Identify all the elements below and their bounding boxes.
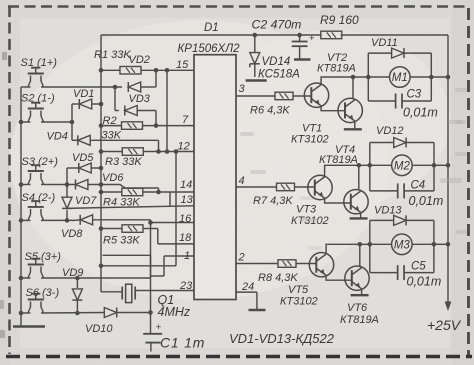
node rail junction М3: [446, 242, 451, 247]
wire VD1-VD4 column vertical: [71, 104, 73, 140]
motor М3: [370, 243, 392, 245]
transistor VT4: [344, 190, 368, 214]
wire VT4 emitter down: [360, 212, 362, 218]
wire column C pin12 down to bus stub: [175, 152, 177, 266]
wire М1 to +25V rail: [431, 76, 448, 78]
resistor R3: [122, 148, 143, 156]
wire VD7 column vertical: [66, 185, 68, 198]
wire pin24 to ground: [236, 291, 257, 293]
diode VD3: [124, 106, 126, 116]
resistor R1: [120, 67, 141, 75]
wire keyboard bus vertical x=101 from rail to crystal: [100, 35, 102, 292]
ground under VD14: [246, 79, 267, 81]
wire pin3 line: [236, 95, 275, 97]
node М3 left: [368, 242, 373, 247]
node rail junction М1: [446, 75, 451, 80]
diode VD1: [72, 103, 79, 105]
node collectors junction: [351, 75, 356, 80]
wire VT5 emitter to VT6 base: [326, 275, 352, 280]
ground VT4 emitter: [350, 217, 368, 219]
node S3/VD5/VD7 junction: [65, 182, 70, 187]
diode VD4: [72, 139, 78, 141]
ground VT6 emitter: [351, 294, 369, 296]
diode VD6: [75, 180, 77, 190]
node М3 right: [432, 242, 437, 247]
wire S6 node to VD10: [41, 312, 104, 315]
wire VT6 emitter down: [361, 289, 363, 295]
wire S2 node to VD1/VD4 column: [41, 121, 72, 123]
wire pin2 line: [236, 263, 278, 265]
diode VD5: [78, 163, 80, 173]
wire VT2 emitter down: [354, 121, 356, 129]
wire motor unit М3 left bar: [369, 220, 371, 272]
wire VD4 to row3: [90, 139, 158, 141]
wire row pin7: [101, 125, 122, 127]
diode VD9 (vertical): [76, 278, 78, 288]
resistor R6: [275, 92, 293, 100]
wire top rail from keyboard bus to right supply rail: [101, 34, 322, 36]
zener diode VD14 KS518A: [254, 35, 256, 52]
capacitor C3 0,01m: [368, 100, 395, 102]
ground under C2: [294, 58, 311, 60]
wire VD5 branch: [66, 168, 68, 185]
wire VT3 collector to motor line: [325, 165, 369, 177]
transistor VT2: [338, 98, 362, 122]
crystal Q1 4MHz: [121, 291, 123, 293]
wire row pin12: [101, 151, 123, 153]
node М2 right: [432, 163, 437, 168]
wire VT6 collector riser: [359, 244, 361, 266]
wire S4 node to VD8: [41, 219, 75, 221]
diode VD7 (vertical): [62, 207, 72, 209]
diode VD8: [75, 219, 80, 222]
node S1/VD2/VD3 junction: [113, 85, 118, 90]
wire S5 node rightward: [41, 277, 151, 279]
node М1 left: [366, 75, 371, 80]
wire R4 row jog to pin13 line: [169, 192, 171, 206]
wire VT3 emitter to VT4 base: [325, 198, 351, 203]
diode VD10: [116, 308, 118, 318]
node collectors junction: [357, 163, 362, 168]
node rail junction М2: [446, 163, 451, 168]
capacitor C5 0,01m: [370, 272, 398, 274]
wire column B pin15-pin12: [166, 70, 168, 151]
node row3/colC: [174, 149, 179, 154]
diode VD2: [127, 82, 129, 92]
node S4/VD7 junction: [65, 218, 70, 223]
node row3/VD4: [156, 149, 161, 154]
wire motor unit М2 left bar: [369, 143, 371, 191]
dashed border frame: [8, 5, 470, 8]
wire pin23 line to crystal: [137, 290, 194, 292]
wire VD2 to row1: [141, 86, 156, 88]
transistor VT6: [345, 266, 369, 290]
ground pin24: [249, 309, 266, 311]
node VD14 junction on rail: [253, 33, 258, 38]
resistor R4: [122, 188, 143, 196]
resistor R9: [321, 31, 342, 39]
wire VT4 collector riser: [358, 165, 360, 190]
wire VD3 to row2: [137, 110, 156, 112]
wire VD3 branch vertical: [114, 87, 116, 111]
resistor R2: [122, 122, 143, 130]
capacitor C2 470m (polarized): [299, 35, 301, 41]
resistor R8: [278, 260, 296, 268]
wire М2 to +25V rail: [434, 164, 448, 166]
wire row pin14: [101, 191, 122, 193]
wire pin16/VD8/S6/C1 riser: [150, 220, 152, 333]
wire VT2 collector riser: [352, 77, 354, 99]
node row1/colB: [165, 68, 170, 73]
wire row R5 to pin18: [101, 228, 122, 230]
node М2 left: [368, 163, 373, 168]
node C2 junction on rail: [297, 33, 302, 38]
IC D1 KR1506HL2: [194, 55, 236, 300]
wire motor unit М2 right bar: [433, 143, 435, 191]
ground left common: [20, 325, 22, 327]
wire row pin15: [101, 69, 120, 71]
capacitor C4 0,01m: [370, 190, 398, 192]
wire S1 node to VD2: [41, 86, 122, 88]
wire pin4 line: [236, 186, 276, 188]
capacitor C1 1m (polarized): [143, 333, 162, 335]
resistor R5: [122, 225, 143, 233]
node М1 right: [429, 75, 434, 80]
wire pin16 line: [151, 222, 195, 224]
transistor VT3: [308, 175, 332, 199]
wire М3 to +25V rail: [434, 243, 448, 245]
transistor VT5: [309, 253, 333, 277]
wire VT5 collector to motor line: [326, 244, 368, 254]
node S6/VD9 junction: [75, 311, 80, 316]
wire VD6 to pin14 row: [88, 185, 159, 189]
node collectors junction: [358, 242, 363, 247]
wire motor unit М3 right bar: [433, 220, 435, 272]
diode VD12: [370, 142, 394, 144]
wire right supply rail down to +25V arrow: [447, 35, 449, 303]
wire motor unit М1 right bar: [430, 53, 432, 101]
diode VD13: [370, 219, 394, 221]
wire VT1 collector to motor line: [321, 77, 368, 85]
wire VT1 emitter to VT2 base: [321, 106, 345, 111]
node S5/VD9 junction: [75, 276, 80, 281]
wire left common bus to ground: [20, 87, 22, 325]
motor М2: [370, 164, 392, 166]
ground VT2 emitter: [344, 128, 362, 130]
wire S3 node to VD6: [41, 184, 76, 186]
wire pin13 line from VD7: [67, 206, 194, 209]
diode VD11: [368, 52, 391, 54]
wire pin1 line with staircase to bus: [164, 255, 194, 257]
transistor VT1: [304, 83, 328, 107]
motor М1: [368, 76, 389, 78]
resistor R7: [277, 183, 295, 191]
wire VD8 to pin16 riser: [93, 219, 151, 221]
wire motor unit М1 left bar: [367, 53, 369, 101]
wire VD10 to pin16 riser: [117, 312, 151, 314]
node S2/VD1/VD4 junction: [70, 120, 75, 125]
